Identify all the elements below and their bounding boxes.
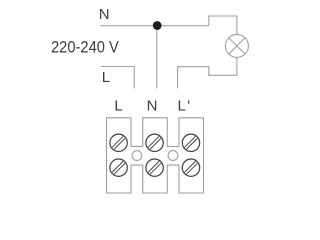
svg-text:N: N xyxy=(99,6,110,23)
wire hole left xyxy=(132,151,142,161)
lamp E1 circle xyxy=(225,34,248,57)
wire N to lamp (step up) xyxy=(209,16,237,34)
wire L horizontal xyxy=(101,66,134,68)
svg-text:L: L xyxy=(114,98,122,115)
svg-text:L: L xyxy=(178,98,186,115)
screw L' top xyxy=(182,134,199,151)
terminal block X1 outline xyxy=(107,118,204,193)
screw N bottom xyxy=(146,159,163,176)
wire N vertical to terminal xyxy=(156,26,158,89)
junction node (N tap) xyxy=(153,21,162,30)
svg-text:N: N xyxy=(147,98,158,115)
screw N top xyxy=(146,134,163,151)
svg-text:220-240 V: 220-240 V xyxy=(51,39,119,57)
svg-text:': ' xyxy=(187,98,190,115)
wire L vertical to terminal xyxy=(133,67,135,89)
lamp E1 cross xyxy=(229,38,245,54)
wire hole right xyxy=(168,151,178,161)
wire lamp return (step down) xyxy=(178,57,237,75)
screw L' bottom xyxy=(182,159,199,176)
wire N horizontal xyxy=(101,25,209,27)
screw L bottom xyxy=(110,159,127,176)
screw L top xyxy=(110,134,127,151)
wire L' vertical to terminal xyxy=(177,67,179,89)
svg-text:L: L xyxy=(102,69,110,86)
